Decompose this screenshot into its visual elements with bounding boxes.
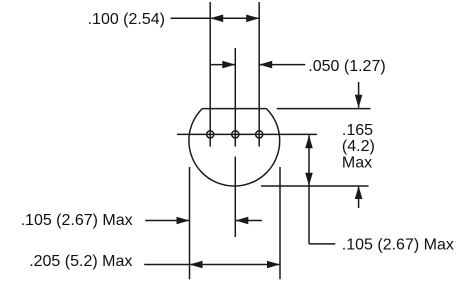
svg-text:.105 (2.67) Max: .105 (2.67) Max (342, 237, 454, 254)
dimension line .105 left second segment (235, 220, 262, 222)
dimension line .050 left segment (210, 64, 235, 66)
svg-text:.165: .165 (342, 122, 373, 139)
arrowhead .105 left pointing right (177, 217, 190, 225)
bottom left extension line (189, 167, 191, 279)
dimension line .050 right leader (259, 64, 305, 66)
arrowhead .105 right up (305, 135, 313, 148)
pin 1 extension line (209, 2, 211, 147)
pin 2 extension line upper (234, 48, 236, 147)
dimension line .100 (171, 17, 260, 19)
flat top extension line right (277, 108, 371, 110)
arrowhead .100 right (246, 15, 259, 23)
arrowhead .165 bottom (up) (355, 186, 363, 199)
arrowhead .050 left (222, 61, 235, 69)
package flat top edge (202, 108, 266, 110)
pin centre line horizontal (177, 133, 317, 135)
arrowhead .205 right (267, 261, 280, 269)
svg-text:Max: Max (342, 154, 372, 171)
arrowhead .165 top (down) (355, 95, 363, 108)
dimension .105 right double-arrow stem and leader (308, 135, 310, 244)
pin 2 extension line lower (234, 157, 236, 238)
package body outline (circle with flat top) (189, 109, 280, 187)
svg-text:.100 (2.54): .100 (2.54) (88, 11, 165, 28)
pin 3 extension line (258, 2, 260, 147)
pin 3 (256, 131, 263, 138)
arrowhead .100 left (210, 15, 223, 23)
bottom right extension line (279, 167, 281, 279)
dimension .165 upper arrow stem (358, 82, 360, 108)
bottom tangent reference line (261, 185, 369, 187)
svg-text:(4.2): (4.2) (342, 138, 375, 155)
arrowhead .205 left (190, 261, 203, 269)
dimension .165 lower arrow stem (358, 186, 360, 208)
dimension line .205 (144, 264, 280, 266)
arrowhead .105 left pointing left (235, 217, 248, 225)
pin 1 (207, 131, 214, 138)
leader horizontal to .105 right text (309, 243, 335, 245)
arrowhead .105 right down (305, 173, 313, 186)
arrowhead .050 right (259, 61, 272, 69)
svg-text:.205 (5.2) Max: .205 (5.2) Max (29, 253, 132, 270)
pin 2 (232, 131, 239, 138)
dimension line .105 left (145, 220, 189, 222)
svg-text:.050 (1.27): .050 (1.27) (308, 58, 385, 75)
svg-text:.105 (2.67) Max: .105 (2.67) Max (21, 212, 133, 229)
